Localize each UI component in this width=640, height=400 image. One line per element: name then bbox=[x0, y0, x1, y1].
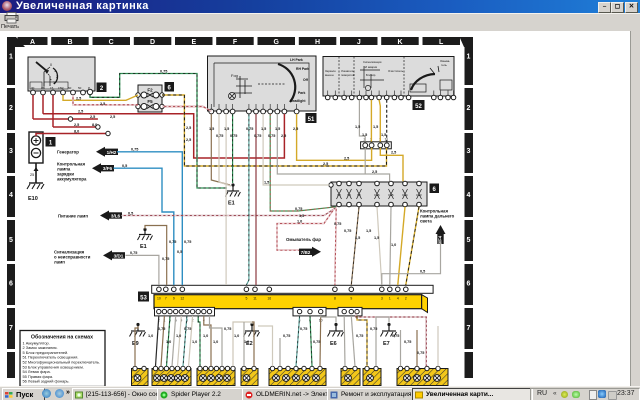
svg-text:6: 6 bbox=[467, 281, 471, 288]
arrow 7/B2 bbox=[299, 247, 321, 257]
svg-text:50: 50 bbox=[78, 86, 82, 90]
label 53 bbox=[139, 292, 149, 301]
ground E1 upper bbox=[225, 183, 240, 206]
wire blue generator 0,75 bbox=[117, 152, 182, 285]
svg-text:J: J bbox=[357, 39, 361, 46]
wire gray high beam indicator bbox=[382, 243, 441, 286]
lamp cluster 4 bbox=[241, 366, 258, 385]
wire yellow 52 t3 to connector bbox=[379, 100, 380, 142]
bottom wire gray bus4 bbox=[172, 316, 176, 366]
svg-text:3/L6: 3/L6 bbox=[111, 214, 121, 219]
wire brown ground E1 lower to bus bbox=[145, 226, 167, 286]
svg-text:1,5: 1,5 bbox=[209, 127, 214, 131]
svg-text:F16: F16 bbox=[374, 193, 380, 197]
arrow 1/H2 bbox=[96, 147, 118, 157]
label 2 bbox=[97, 83, 106, 92]
svg-text:2: 2 bbox=[405, 297, 407, 301]
wire red ignition t30b down bbox=[42, 95, 44, 114]
wire maroon-white lamp feed 0,5 bbox=[122, 208, 337, 216]
frame corner top-left bbox=[7, 37, 25, 47]
svg-text:6: 6 bbox=[9, 281, 13, 288]
wire blue charge lamp 0,5 bbox=[114, 168, 174, 285]
svg-text:1: 1 bbox=[9, 54, 13, 61]
svg-text:F: F bbox=[233, 39, 238, 46]
svg-text:E7: E7 bbox=[383, 341, 390, 347]
svg-text:1,5: 1,5 bbox=[381, 133, 386, 137]
ground E9 bbox=[130, 323, 146, 347]
lamp cluster 5 bbox=[269, 366, 326, 385]
column header K bbox=[381, 37, 419, 45]
svg-text:1,0: 1,0 bbox=[234, 334, 239, 338]
svg-text:0,75: 0,75 bbox=[184, 240, 191, 244]
bottom wire brown lamp8 t3 bbox=[416, 330, 418, 366]
svg-text:1/H2: 1/H2 bbox=[107, 150, 117, 155]
lamp cluster 6 bbox=[341, 366, 360, 385]
arrow 3/L6 bbox=[100, 211, 122, 221]
svg-text:Очиститель: Очиститель bbox=[388, 69, 404, 73]
svg-text:4: 4 bbox=[9, 192, 13, 199]
svg-text:0,75: 0,75 bbox=[230, 134, 237, 138]
label 51 bbox=[306, 114, 316, 123]
svg-text:0,75: 0,75 bbox=[169, 240, 176, 244]
svg-text:56 Левый задний фонарь.: 56 Левый задний фонарь. bbox=[23, 379, 70, 384]
bottom wire brown lamp1 to E9 bbox=[135, 326, 138, 366]
svg-text:0,75: 0,75 bbox=[334, 222, 341, 226]
column header C bbox=[93, 37, 131, 45]
wire gray fault signal 0,75 bbox=[126, 255, 159, 285]
wire red-white fuse to washer arrow 7/B2 bbox=[277, 209, 334, 250]
svg-text:0,75: 0,75 bbox=[158, 327, 165, 331]
wire red ignition t30a down bbox=[32, 95, 34, 119]
bottom wire brown lamp4b to E2 bbox=[252, 322, 254, 366]
svg-text:2: 2 bbox=[467, 105, 471, 112]
bottom wire gray lamp4 to E2 bbox=[243, 322, 245, 366]
svg-text:0,75: 0,75 bbox=[131, 148, 138, 152]
bottom wire teal bus B1 to lamp5 bbox=[296, 316, 300, 366]
svg-text:1,0: 1,0 bbox=[148, 334, 153, 338]
bottom wire gray E6 to bus bbox=[321, 316, 336, 323]
svg-text:F15: F15 bbox=[388, 193, 394, 197]
wire yellow 2,5 to fuse F2 bbox=[63, 95, 138, 100]
svg-text:1,0: 1,0 bbox=[192, 340, 197, 344]
svg-text:52: 52 bbox=[415, 104, 422, 110]
wire gray 51 t9 to fuse box 2,5 bbox=[277, 114, 389, 181]
svg-text:4: 4 bbox=[467, 192, 471, 199]
svg-text:0,75: 0,75 bbox=[224, 327, 231, 331]
window title bar bbox=[0, 0, 640, 13]
junction node end y133.5 bbox=[106, 131, 110, 135]
lamp cluster 8 rear bbox=[397, 366, 448, 385]
wire tan 51 t2 to E1 bbox=[219, 114, 231, 186]
svg-text:1: 1 bbox=[54, 69, 56, 73]
label 6 (fuse F2/F5) bbox=[165, 83, 174, 92]
text generator label bbox=[54, 150, 455, 265]
arrow 3/D1 bbox=[103, 250, 125, 260]
wire red battery 8,0 bbox=[36, 134, 108, 137]
wire yellow-black fuse F13 to bus bbox=[406, 207, 419, 285]
task buttons bbox=[72, 388, 169, 400]
wire gray 52 to connector bbox=[359, 100, 365, 142]
ground E2 bbox=[244, 323, 260, 347]
svg-text:7/B2: 7/B2 bbox=[301, 250, 311, 255]
svg-text:RH Park: RH Park bbox=[296, 67, 309, 71]
svg-text:внешн.: внешн. bbox=[325, 73, 334, 77]
svg-text:Park: Park bbox=[298, 91, 305, 95]
bottom wire cream lamp5 stub bbox=[258, 326, 273, 366]
svg-text:0,75: 0,75 bbox=[184, 327, 191, 331]
right row band bbox=[465, 46, 474, 378]
column header A bbox=[18, 37, 48, 45]
svg-text:F14: F14 bbox=[402, 193, 408, 197]
wire black 52 t4 to connector bbox=[386, 100, 388, 142]
svg-text:C: C bbox=[109, 39, 114, 46]
wire gray fuse F15 to bus bbox=[390, 207, 391, 285]
svg-text:0,5: 0,5 bbox=[420, 270, 425, 274]
svg-text:2: 2 bbox=[56, 75, 58, 79]
bottom wire gray bus C2 to lamp6 bbox=[351, 316, 355, 366]
svg-text:ламп: ламп bbox=[54, 260, 65, 265]
svg-text:Fog: Fog bbox=[231, 73, 238, 78]
wire brown-black fuse F6 to bus bbox=[351, 207, 359, 285]
wire red 2,5/8,0 row bbox=[53, 126, 98, 128]
svg-text:5: 5 bbox=[467, 237, 471, 244]
column header D bbox=[134, 37, 172, 45]
switch 51 terminal pin labels bbox=[211, 104, 296, 109]
svg-text:12: 12 bbox=[180, 297, 184, 301]
arrow 3/F6 bbox=[92, 163, 114, 173]
svg-text:0,75: 0,75 bbox=[404, 340, 411, 344]
svg-text:H: H bbox=[315, 39, 320, 46]
wire battery to ground E10 bbox=[35, 163, 37, 183]
bottom wire gray lamp8 t1 bbox=[400, 330, 402, 366]
bottom wire cream bus5 bbox=[178, 316, 182, 366]
svg-text:2,5: 2,5 bbox=[323, 162, 328, 166]
bottom wire gray E7 stem bbox=[376, 317, 389, 366]
lamp unit 54 cluster 1 bbox=[132, 366, 149, 385]
svg-text:0,75: 0,75 bbox=[295, 207, 302, 211]
svg-text:25: 25 bbox=[30, 173, 34, 177]
svg-text:8: 8 bbox=[334, 297, 336, 301]
svg-text:Омыватель фар: Омыватель фар bbox=[286, 237, 321, 242]
junction node y119 bbox=[68, 117, 72, 121]
multifunction switch 52 bbox=[323, 57, 454, 97]
wire brown 51 t1 to E1 bbox=[211, 114, 230, 185]
svg-text:Off: Off bbox=[303, 78, 309, 82]
svg-text:A: A bbox=[30, 39, 35, 46]
svg-text:E: E bbox=[191, 39, 196, 46]
svg-text:1,0: 1,0 bbox=[166, 340, 171, 344]
bottom wire yellow-black bus C3 to lamp7 bbox=[357, 316, 367, 366]
svg-text:0,75: 0,75 bbox=[160, 70, 167, 74]
svg-text:F5: F5 bbox=[147, 99, 153, 104]
svg-text:5: 5 bbox=[9, 237, 13, 244]
printer icon bbox=[5, 13, 18, 24]
wire red ignition t15 down bbox=[52, 95, 54, 127]
svg-text:тель: тель bbox=[441, 63, 447, 67]
svg-text:1,5: 1,5 bbox=[261, 127, 266, 131]
wire white 51 t7 to fuse box 1,5 bbox=[263, 114, 329, 185]
wire red 2,5 row bbox=[33, 118, 98, 120]
svg-text:0,75: 0,75 bbox=[268, 134, 275, 138]
svg-text:F2: F2 bbox=[147, 88, 153, 93]
wire red-white fuse F3 to bus bbox=[335, 207, 336, 285]
light switch 51 terminals bbox=[209, 109, 299, 114]
svg-text:аккумулятора: аккумулятора bbox=[57, 177, 87, 182]
svg-text:K: K bbox=[397, 39, 402, 46]
switch 52 terminal pin labels bbox=[328, 91, 454, 96]
svg-text:1,0: 1,0 bbox=[213, 340, 218, 344]
ground E7 bbox=[381, 323, 397, 347]
svg-text:3: 3 bbox=[381, 297, 383, 301]
left row band bbox=[7, 46, 15, 378]
svg-text:2: 2 bbox=[9, 105, 13, 112]
fuse box F2 F5 (6) bbox=[136, 85, 164, 112]
column header L bbox=[423, 37, 461, 45]
lamp unit 54 left headlamp bbox=[152, 366, 191, 385]
svg-text:5: 5 bbox=[245, 297, 247, 301]
svg-text:4: 4 bbox=[397, 297, 399, 301]
lamp cluster 7 bbox=[363, 366, 381, 385]
frame corner top-right bbox=[460, 37, 474, 47]
row numbers bbox=[9, 54, 471, 333]
svg-text:0: 0 bbox=[50, 63, 52, 67]
svg-text:3/D1: 3/D1 bbox=[114, 253, 124, 258]
bottom wire black bus1 bbox=[156, 316, 159, 366]
svg-text:G: G bbox=[273, 39, 279, 46]
svg-text:2,5: 2,5 bbox=[293, 127, 298, 131]
svg-text:0,75: 0,75 bbox=[417, 351, 424, 355]
quick launch icons bbox=[42, 389, 51, 398]
bus bar 53 bottom connector strips bbox=[155, 307, 363, 322]
wire teal-black 51 t5 to bus bbox=[246, 114, 249, 285]
wire cream fuse F16 to bus bbox=[377, 207, 382, 285]
svg-text:0,75: 0,75 bbox=[370, 327, 377, 331]
svg-text:Генератор: Генератор bbox=[57, 150, 79, 155]
bottom wire gray lamp5 stub2 bbox=[279, 338, 281, 366]
svg-text:3: 3 bbox=[9, 148, 13, 155]
svg-text:1: 1 bbox=[467, 54, 471, 61]
svg-text:0,75: 0,75 bbox=[392, 334, 399, 338]
svg-text:7: 7 bbox=[467, 325, 471, 332]
column header E bbox=[175, 37, 213, 45]
svg-text:2,5: 2,5 bbox=[76, 97, 81, 101]
svg-text:F6: F6 bbox=[357, 193, 361, 197]
bottom wire teal bus6 bbox=[183, 316, 187, 366]
svg-text:F4: F4 bbox=[347, 193, 351, 197]
legend box bbox=[20, 331, 105, 387]
bottom wire green bus B2 to lamp5 bbox=[310, 316, 312, 366]
svg-text:1,0: 1,0 bbox=[176, 334, 181, 338]
svg-text:B: B bbox=[67, 39, 72, 46]
svg-text:E10: E10 bbox=[28, 196, 38, 202]
wire gray connector to fuse box bbox=[364, 148, 366, 174]
wire red main feed 2,5 to switch 51 bbox=[43, 114, 284, 158]
svg-text:7: 7 bbox=[9, 325, 13, 332]
svg-text:1,5: 1,5 bbox=[373, 125, 378, 129]
svg-text:0,5: 0,5 bbox=[177, 250, 182, 254]
svg-text:51: 51 bbox=[308, 117, 315, 123]
label 1 bbox=[46, 138, 55, 147]
svg-text:1,0: 1,0 bbox=[244, 340, 249, 344]
svg-text:Сигнализация: Сигнализация bbox=[363, 60, 382, 64]
svg-text:2,5: 2,5 bbox=[100, 102, 105, 106]
system tray bbox=[530, 388, 640, 400]
bottom wire green bus8 bbox=[198, 316, 200, 366]
svg-text:E1: E1 bbox=[228, 201, 235, 207]
ignition terminals bbox=[31, 89, 93, 95]
svg-text:2,5: 2,5 bbox=[281, 134, 286, 138]
svg-text:0,75: 0,75 bbox=[216, 134, 223, 138]
wire yellow fuse F14 to bus bbox=[398, 207, 405, 285]
svg-text:F13: F13 bbox=[416, 193, 422, 197]
svg-text:1,5: 1,5 bbox=[264, 181, 269, 185]
svg-text:50: 50 bbox=[68, 86, 72, 90]
svg-text:2,5: 2,5 bbox=[90, 115, 95, 119]
svg-text:1,5: 1,5 bbox=[366, 229, 371, 233]
bottom wire gray bus10 bbox=[210, 316, 223, 366]
wire red-white fuse F5 to switch 51 bbox=[162, 107, 211, 112]
svg-text:3: 3 bbox=[53, 81, 55, 85]
multifunction 52 terminals bbox=[325, 95, 455, 100]
column header G bbox=[258, 37, 296, 45]
svg-text:об аварии: об аварии bbox=[364, 65, 378, 69]
label 6 (fuse box) bbox=[430, 184, 439, 193]
column header J bbox=[340, 37, 378, 45]
bottom wire green bus3 bbox=[167, 316, 171, 366]
svg-text:1,5: 1,5 bbox=[224, 127, 229, 131]
wire yellow 52 t2 to connector bbox=[370, 100, 372, 142]
svg-text:53: 53 bbox=[140, 295, 147, 301]
bottom wire tan lamp3 to E2 bbox=[233, 322, 252, 366]
svg-text:0,5: 0,5 bbox=[128, 211, 133, 215]
ignition switch 2 bbox=[28, 57, 95, 91]
column header F bbox=[216, 37, 254, 45]
svg-text:1,5: 1,5 bbox=[355, 125, 360, 129]
junction node end y127 bbox=[96, 125, 100, 129]
wire cream 51 t3 to bus bbox=[225, 114, 227, 285]
svg-text:1,5: 1,5 bbox=[299, 214, 304, 218]
svg-text:LH Park: LH Park bbox=[290, 58, 303, 62]
svg-text:поворотов: поворотов bbox=[341, 73, 355, 77]
lamp unit 55 right headlamp bbox=[197, 366, 235, 385]
connector block X bbox=[361, 138, 392, 149]
svg-text:2,5: 2,5 bbox=[186, 126, 191, 130]
svg-text:0,5: 0,5 bbox=[122, 164, 127, 168]
svg-text:2,5: 2,5 bbox=[372, 170, 377, 174]
svg-text:15R: 15R bbox=[58, 86, 64, 90]
svg-text:9: 9 bbox=[173, 297, 175, 301]
svg-text:1: 1 bbox=[389, 297, 391, 301]
label 52 bbox=[413, 101, 424, 110]
svg-text:11: 11 bbox=[253, 297, 257, 301]
wire yellow 51 t11 to connector bbox=[297, 114, 372, 160]
fuse box 6 bbox=[329, 181, 427, 207]
bottom wire brown bus2 bbox=[161, 316, 164, 366]
svg-text:1,5: 1,5 bbox=[355, 236, 360, 240]
column header letters bbox=[30, 39, 444, 46]
bus bar 53 top connector strip bbox=[152, 285, 433, 293]
ground E1 lower bbox=[138, 228, 153, 250]
svg-text:F3: F3 bbox=[337, 193, 341, 197]
svg-text:1,5: 1,5 bbox=[275, 127, 280, 131]
toolbar with print button bbox=[0, 13, 640, 31]
svg-text:2,5: 2,5 bbox=[110, 115, 115, 119]
column header H bbox=[299, 37, 337, 45]
bottom wire gray bus C1 to lamp6 bbox=[343, 316, 346, 366]
arrow 3/F4 up bbox=[436, 225, 446, 244]
svg-text:0,75: 0,75 bbox=[300, 327, 307, 331]
svg-text:1,5: 1,5 bbox=[362, 133, 367, 137]
svg-text:света: света bbox=[420, 219, 432, 224]
svg-text:2,5: 2,5 bbox=[74, 123, 79, 127]
svg-text:15: 15 bbox=[50, 86, 54, 90]
svg-text:8,0: 8,0 bbox=[92, 123, 97, 127]
svg-text:3/F6: 3/F6 bbox=[103, 166, 113, 171]
svg-text:0,75: 0,75 bbox=[130, 251, 137, 255]
wire yellow connector t3 to fuse F14 bbox=[380, 148, 403, 182]
ground E6 bbox=[328, 323, 344, 347]
column header B bbox=[51, 37, 88, 45]
wire black-yellow from fuse F2 to connector block bbox=[162, 95, 387, 166]
taskbar bbox=[0, 386, 640, 400]
bottom wire brown bus B3 to lamp5 bbox=[319, 316, 322, 366]
svg-text:L: L bbox=[439, 39, 444, 46]
battery 1 bbox=[29, 132, 43, 163]
svg-text:2,5: 2,5 bbox=[78, 110, 83, 114]
svg-text:Headlight: Headlight bbox=[290, 99, 306, 103]
svg-text:7: 7 bbox=[165, 297, 167, 301]
svg-text:1,0: 1,0 bbox=[297, 220, 302, 224]
light switch 51 bbox=[208, 56, 317, 111]
svg-text:0,75: 0,75 bbox=[254, 134, 261, 138]
svg-text:0,75: 0,75 bbox=[162, 257, 169, 261]
svg-text:16: 16 bbox=[267, 297, 271, 301]
wire green-black 51 t4 to ground E1 bbox=[232, 114, 234, 183]
svg-text:0,75: 0,75 bbox=[246, 127, 253, 131]
svg-text:2,5: 2,5 bbox=[391, 151, 396, 155]
svg-text:8,0: 8,0 bbox=[74, 129, 79, 133]
svg-text:0,75: 0,75 bbox=[356, 334, 363, 338]
svg-text:D: D bbox=[150, 39, 155, 46]
wire red-white bus to rear lamp bbox=[356, 314, 426, 367]
svg-text:9: 9 bbox=[350, 297, 352, 301]
svg-text:2,5: 2,5 bbox=[186, 138, 191, 142]
wire darkred 51 t6 to bus bbox=[255, 114, 257, 285]
svg-text:1,5: 1,5 bbox=[374, 236, 379, 240]
svg-text:0,75: 0,75 bbox=[313, 340, 320, 344]
svg-text:30: 30 bbox=[31, 86, 35, 90]
svg-text:3: 3 bbox=[467, 148, 471, 155]
bottom wire brown bus9 bbox=[204, 316, 211, 366]
svg-text:E1: E1 bbox=[140, 244, 147, 250]
bottom wire tan bus7 bbox=[189, 316, 193, 366]
wire green-black ground run to E1 bbox=[90, 74, 227, 189]
svg-text:Питание ламп: Питание ламп bbox=[58, 214, 88, 219]
svg-text:10: 10 bbox=[157, 297, 161, 301]
bottom wire cream lamp8 t5 bbox=[437, 326, 439, 366]
svg-text:1,0: 1,0 bbox=[391, 243, 396, 247]
svg-text:E6: E6 bbox=[330, 341, 337, 347]
svg-text:30: 30 bbox=[41, 86, 45, 90]
bus bar 53 yellow bar bbox=[154, 295, 428, 313]
ground E10 bbox=[27, 183, 44, 202]
svg-text:1,0: 1,0 bbox=[203, 334, 208, 338]
wire red-white 2,5 to fuse F5 bbox=[73, 95, 138, 105]
svg-text:0,75: 0,75 bbox=[344, 229, 351, 233]
svg-text:2,5: 2,5 bbox=[344, 156, 349, 160]
svg-text:0,75: 0,75 bbox=[283, 334, 290, 338]
wire green-red 51 t8 to fuse box corner bbox=[270, 114, 336, 211]
